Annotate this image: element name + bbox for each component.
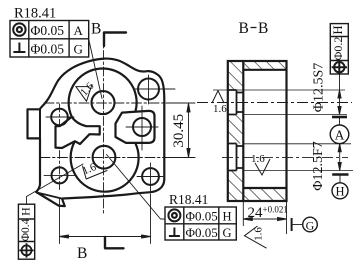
top bore arc	[69, 68, 137, 116]
svg-text:H: H	[335, 184, 344, 198]
dimension 24	[243, 202, 286, 234]
centerline top bore section	[197, 102, 352, 104]
svg-text:G: G	[306, 218, 315, 232]
right boss	[116, 111, 155, 143]
svg-text:+0.021: +0.021	[263, 205, 288, 215]
outer outline	[28, 59, 165, 207]
svg-text:B: B	[239, 20, 249, 37]
hatch areas	[228, 62, 286, 201]
surface finish 1.6 at 24 dim	[245, 226, 267, 248]
svg-text:B: B	[258, 20, 268, 37]
svg-text:R18.41: R18.41	[14, 5, 56, 21]
centerline vertical through bores	[103, 34, 105, 215]
svg-text:B: B	[77, 245, 87, 262]
bottom bore arc	[71, 141, 139, 191]
bolt hole bottom-left	[52, 167, 68, 183]
bottom shaft hole in wall	[228, 144, 244, 171]
concentricity symbol	[168, 209, 180, 221]
centerline horizontal bottom bore	[40, 157, 195, 159]
top shaft hole in wall	[228, 90, 244, 115]
section letter B bottom	[105, 237, 124, 248]
perpendicularity symbol	[169, 228, 180, 237]
bolt hole bottom-right	[142, 168, 159, 185]
centerline bottom bore section	[222, 156, 348, 158]
svg-text:B: B	[91, 21, 101, 38]
FCF top-left	[10, 21, 89, 58]
centerline horizontal top bore	[44, 102, 195, 104]
bolt hole top-right	[138, 79, 159, 100]
FCF right vertical	[330, 24, 348, 75]
svg-text:1.6: 1.6	[253, 227, 265, 241]
svg-text:A: A	[74, 23, 84, 38]
svg-text:G: G	[74, 42, 83, 57]
thin projection lines across cavity	[213, 90, 353, 171]
section outer rectangle	[228, 61, 287, 201]
centerline vertical left bolt holes	[59, 104, 61, 192]
leader top FCF to bore	[89, 41, 102, 99]
svg-text:Φ0.05: Φ0.05	[186, 225, 218, 240]
datum H bar and circle	[332, 173, 348, 176]
svg-text:H: H	[223, 210, 232, 224]
position symbol	[334, 62, 344, 72]
svg-text:30.45: 30.45	[171, 114, 187, 148]
svg-text:Φ0.05: Φ0.05	[31, 23, 65, 38]
FCF bottom	[165, 207, 236, 240]
bolt hole mid-right	[133, 118, 151, 136]
svg-text:H: H	[18, 207, 32, 216]
left edge line across tab	[39, 109, 41, 138]
svg-text:Φ12.5F7: Φ12.5F7	[311, 141, 326, 191]
leader bottom bore to FCF	[107, 155, 166, 220]
section letter B top	[104, 33, 126, 47]
concentricity symbol	[13, 23, 25, 35]
dimension phi12.5S7 line	[338, 74, 341, 115]
dimension 30.45	[166, 103, 195, 158]
bottom shaft hole	[93, 146, 116, 169]
flange inner line	[37, 193, 62, 199]
position symbol	[22, 245, 32, 255]
svg-text:24: 24	[248, 205, 264, 221]
svg-text:G: G	[223, 226, 232, 240]
svg-text:Φ0.05: Φ0.05	[31, 42, 65, 57]
surface finish 1.6 in cavity	[255, 159, 270, 175]
svg-text:1.6: 1.6	[251, 153, 265, 165]
svg-text:Φ0.4: Φ0.4	[20, 218, 32, 241]
surface finish 1.6 bottom bore	[83, 166, 108, 179]
svg-text:Φ12.5S7: Φ12.5S7	[312, 63, 327, 113]
svg-text:A: A	[335, 127, 345, 142]
left pocket	[56, 117, 100, 148]
svg-text:R18.41: R18.41	[169, 192, 208, 207]
FCF left vertical	[18, 204, 34, 259]
svg-text:H: H	[331, 25, 345, 34]
datum G connection	[291, 218, 293, 231]
datum A bar and circle	[332, 116, 347, 119]
cavity	[242, 62, 244, 201]
svg-text:1.6: 1.6	[213, 103, 227, 115]
dimension line bottom (bolt spacing)	[60, 194, 151, 244]
surface finish 1.6 top bore	[76, 85, 92, 102]
perpendicularity symbol	[13, 43, 25, 53]
top shaft hole	[92, 91, 115, 114]
surface finish 1.6 left of section	[212, 91, 224, 103]
bolt hole top-left	[51, 109, 68, 126]
svg-text:Φ0.05: Φ0.05	[186, 209, 218, 224]
leader left FCF to bolt hole	[27, 164, 84, 204]
svg-text:Φ0.2: Φ0.2	[331, 37, 345, 61]
dimension phi12.5F7 line	[338, 144, 341, 171]
